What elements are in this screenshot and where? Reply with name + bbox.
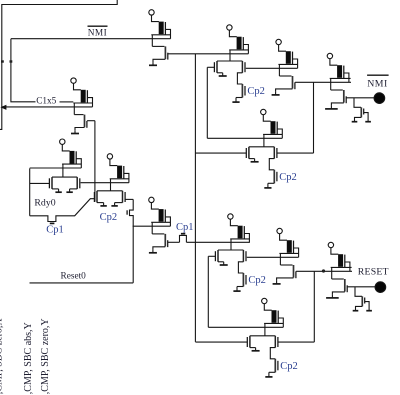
driver transistor M14 (INV2) <box>151 222 153 234</box>
ground INV4 <box>331 295 333 298</box>
driver transistor M14 (INV2) gate wire <box>168 241 180 243</box>
ground INVm <box>275 92 277 95</box>
driver transistor M2 (INV1) source <box>153 59 165 62</box>
driver transistor M20 (INV4) <box>331 267 333 279</box>
wire NMI output run <box>11 39 36 102</box>
svg-text:Rdy0: Rdy0 <box>34 197 55 208</box>
load transistor M6 (gate G2) output line <box>207 137 282 139</box>
pass pair Rdy0 gate stub <box>70 188 78 190</box>
svg-text:Cp1: Cp1 <box>46 225 64 236</box>
pass pair Cp2 gate stub <box>97 202 104 204</box>
wire Rdy node vertical <box>130 199 134 283</box>
wire G2 right gate cross-couple <box>313 82 315 153</box>
ground INV3 <box>330 106 332 109</box>
wire G3 left gate to G4 output <box>207 256 209 327</box>
wire Reset0 line <box>30 282 134 284</box>
driver transistor M20 (INV4) gate wire <box>347 286 375 288</box>
load transistor M18 (gate G4) <box>262 298 267 303</box>
svg-text:,CMP, SBC abs,Y: ,CMP, SBC abs,Y <box>23 322 34 394</box>
load transistor M12 (Cp2 pair) drain feed <box>110 179 112 191</box>
load transistor M4 (INVm) output line <box>246 67 298 69</box>
gate G2 transistors left gate wire <box>195 152 246 154</box>
gate G2 transistors clock transistor Cp2 <box>269 159 274 170</box>
driver transistor M17 (INVmb) <box>279 253 281 265</box>
svg-text:NMI: NMI <box>88 29 107 39</box>
gate G1 transistors left source <box>217 72 223 74</box>
load transistor M15 (gate G3) drain feed <box>230 239 232 250</box>
pass pair Rdy0 left gate wire <box>30 182 50 184</box>
gate G1 transistors left ground <box>222 73 224 76</box>
wire diagonal to Cp2 pair gate <box>70 199 95 216</box>
pass pair Cp2 <box>97 190 123 192</box>
gate G3 transistors clock transistor Cp2 <box>238 262 243 273</box>
gate G1 transistors <box>217 60 242 62</box>
load transistor M6 (gate G2) <box>261 109 266 114</box>
load transistor M9 (INVc) <box>71 78 76 83</box>
driver transistor M5 (INVm) source <box>276 89 293 92</box>
pass pair Rdy0 <box>52 176 77 178</box>
ground INV2 <box>152 250 154 253</box>
driver transistor M14 (INV2) source <box>153 247 165 250</box>
pass pair Rdy0 gate stub <box>52 188 59 190</box>
pad RESET <box>375 282 386 293</box>
arrow input C1x5 <box>0 105 6 110</box>
svg-text:C1x5: C1x5 <box>36 96 56 106</box>
load transistor M3 (gate G1) <box>227 25 232 30</box>
wire Cp1 to G1b <box>186 241 249 243</box>
load transistor M9 (INVc) output line <box>2 106 93 108</box>
wire INVc gate vertical <box>94 121 96 202</box>
svg-text:Cp2: Cp2 <box>279 172 297 183</box>
ground INVc <box>74 130 76 133</box>
gate G3 transistors left source <box>218 261 224 263</box>
ground INV1 <box>152 62 154 65</box>
load transistor M11 (Rdy0 pair) <box>60 139 65 144</box>
driver transistor M10 (INVc) <box>73 103 75 115</box>
load transistor M16 (INVmb) output line <box>247 256 299 258</box>
pass pair Cp2 gate stub <box>115 202 123 204</box>
load transistor M1 (INV1) <box>149 10 154 15</box>
load transistor M11 (Rdy0 pair) drain feed <box>62 164 64 177</box>
load transistor M1 (INV1) output line <box>11 38 171 40</box>
load transistor M18 (gate G4) output line <box>208 326 283 328</box>
node tick A <box>1 60 4 62</box>
gate G2 transistors <box>249 146 274 148</box>
pad NMI <box>374 93 385 104</box>
svg-text:NMI: NMI <box>367 79 388 90</box>
load transistor M18 (gate G4) drain feed <box>264 323 266 335</box>
ground INVmb <box>276 281 278 284</box>
gate G2 transistors left source <box>249 158 255 160</box>
gate G4 transistors clock transistor Cp2 <box>270 348 275 359</box>
gate G3 transistors left gate wire <box>208 255 215 257</box>
driver transistor M5 (INVm) gate wire <box>295 81 351 83</box>
load transistor M4 (INVm) <box>276 39 281 44</box>
load transistor M12 (Cp2 pair) <box>107 154 112 159</box>
load transistor M3 (gate G1) drain feed <box>229 50 231 61</box>
wire C1x5 to inverter <box>60 101 74 103</box>
gate G3 transistors left ground <box>223 262 225 265</box>
wire Rdy0 box left <box>29 168 31 215</box>
load transistor M11 (Rdy0 pair) output line <box>30 167 82 169</box>
wire node N1 vertical <box>194 54 196 342</box>
clock transistor Cp1 left <box>30 216 70 222</box>
load transistor M13 (INV2) <box>149 197 154 202</box>
gate G1 transistors clock transistor Cp2 <box>237 73 242 84</box>
wire pair output line <box>81 182 129 184</box>
load transistor M7 (INV3) <box>327 53 332 58</box>
svg-text:Cp2: Cp2 <box>247 86 265 97</box>
svg-text:,CMP, SBC zero,Y: ,CMP, SBC zero,Y <box>40 318 51 394</box>
load transistor M13 (INV2) output line <box>133 225 171 227</box>
svg-text:Cp2: Cp2 <box>280 361 298 372</box>
gate G4 transistors <box>250 335 275 337</box>
svg-text:RESET: RESET <box>358 266 389 277</box>
driver transistor M8 (INV3) gate wire <box>346 97 374 99</box>
driver transistor M10 (INVc) source <box>75 128 85 131</box>
node tick B <box>10 60 13 62</box>
gate G3 transistors <box>218 249 243 251</box>
wire G1 left gate to G2 output <box>206 67 208 138</box>
driver transistor M2 (INV1) gate wire <box>168 53 248 55</box>
driver transistor M5 (INVm) <box>278 64 280 76</box>
junction dot <box>322 270 325 273</box>
gate G4 transistors left gate wire <box>195 341 247 343</box>
load transistor M16 (INVmb) <box>277 228 282 233</box>
gate G4 transistors left source <box>250 347 256 349</box>
driver transistor M10 (INVc) gate wire <box>87 120 95 122</box>
gate G2 transistors right gate wire <box>277 152 313 154</box>
load transistor M19 (INV4) <box>328 242 333 247</box>
gate G4 transistors right gate wire <box>278 341 314 343</box>
label NMI(bar) top <box>88 25 108 27</box>
driver transistor M2 (INV1) <box>151 35 153 47</box>
gate G1 transistors left gate wire <box>207 66 214 68</box>
clock transistor Cp2 inline <box>126 210 128 214</box>
load transistor M15 (gate G3) <box>228 214 233 219</box>
svg-text:,CMP, SBC zero,X: ,CMP, SBC zero,X <box>0 318 4 395</box>
wire pass pair Cp2 right gate <box>125 198 133 200</box>
svg-text:Cp2: Cp2 <box>100 212 118 223</box>
label NMI(bar) output <box>367 74 389 76</box>
wire G4 right gate cross-couple <box>313 271 315 342</box>
driver transistor M20 (INV4) source <box>332 292 344 295</box>
gate G2 transistors left ground <box>254 159 256 162</box>
driver transistor M8 (INV3) source <box>331 103 343 106</box>
driver transistor M17 (INVmb) source <box>277 278 294 281</box>
svg-text:Cp1: Cp1 <box>176 222 194 233</box>
driver transistor M17 (INVmb) gate wire <box>296 270 352 272</box>
protection transistor Q2 (RESET pad) <box>355 287 362 296</box>
svg-text:Cp2: Cp2 <box>248 275 266 286</box>
driver transistor M8 (INV3) <box>330 78 332 90</box>
load transistor M6 (gate G2) drain feed <box>263 134 265 146</box>
clock transistor Cp1 middle <box>180 235 187 242</box>
protection transistor Q1 (NMI pad) <box>354 98 361 107</box>
svg-text:Reset0: Reset0 <box>61 271 87 281</box>
frame wire upper <box>0 0 117 129</box>
gate G4 transistors left ground <box>255 348 257 351</box>
